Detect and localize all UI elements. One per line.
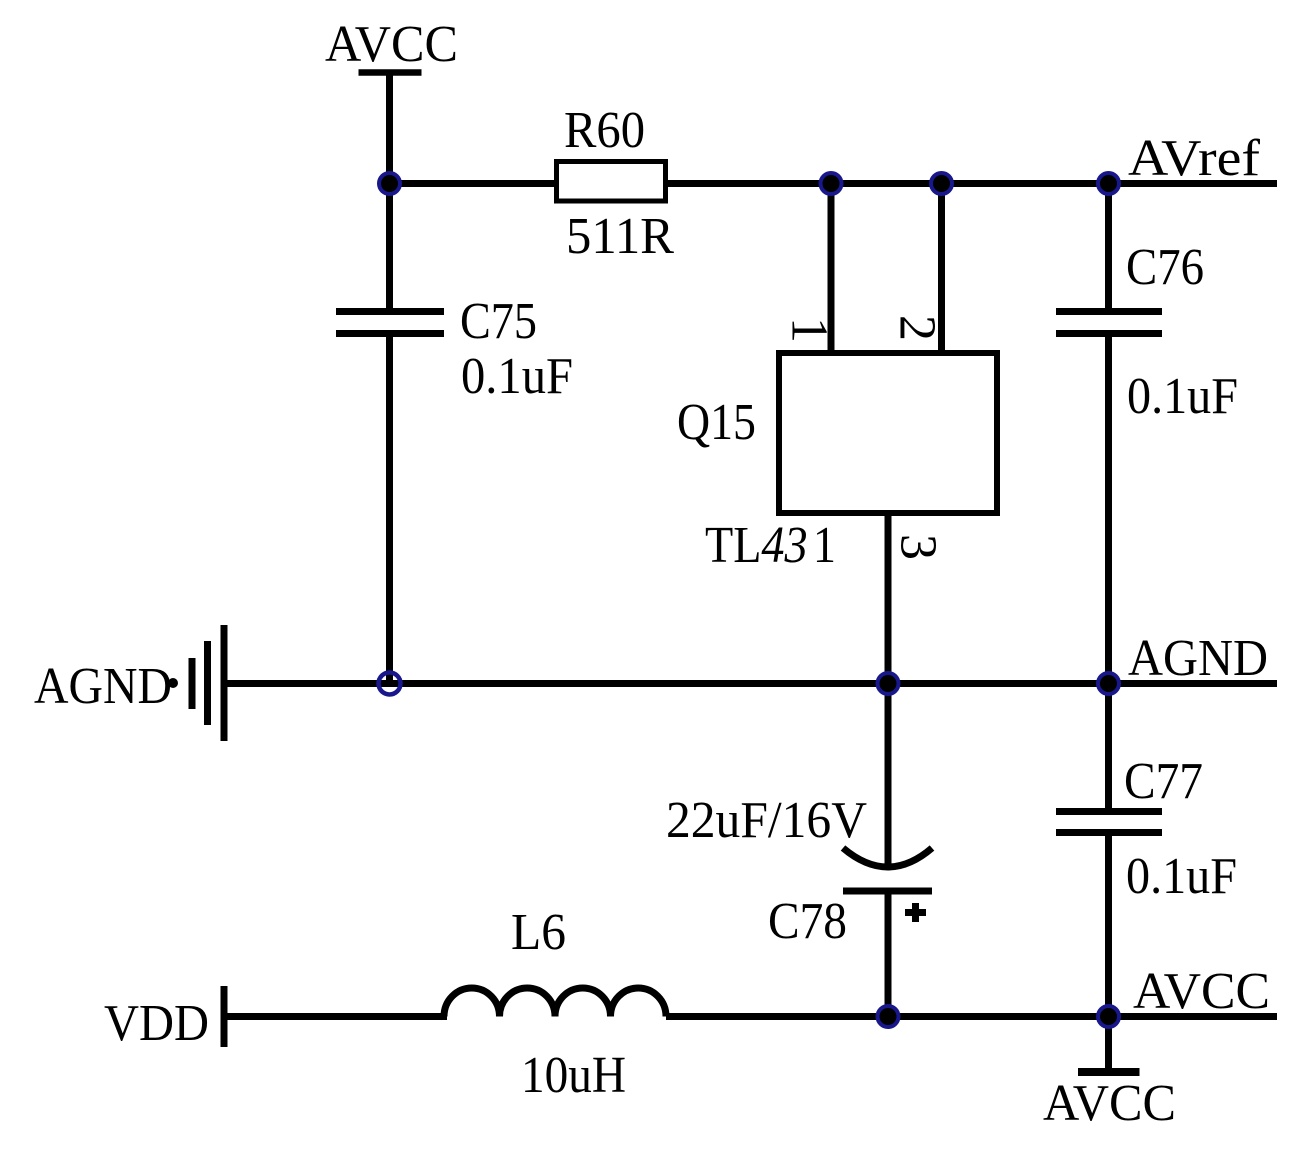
- wire right vertical from C76 down to AGND rail: [1105, 336, 1112, 683]
- svg-text:TL431: TL431: [705, 517, 836, 574]
- junction dot AVCC/C75/R60 node: [379, 173, 400, 194]
- svg-text:0.1uF: 0.1uF: [1127, 368, 1238, 425]
- svg-text:AVCC: AVCC: [325, 16, 458, 73]
- svg-text:C77: C77: [1124, 753, 1203, 810]
- wire bottom rail VDD to inductor: [224, 1013, 447, 1020]
- capacitor C78 (polarized): [843, 848, 932, 922]
- power symbol AVCC bottom-right: [1078, 1016, 1140, 1072]
- junction dot pin2 node: [931, 173, 952, 194]
- wire pin1 vertical from top rail to TL431: [828, 183, 835, 352]
- wire left vertical from AVCC node down to C75: [386, 183, 393, 309]
- svg-text:C76: C76: [1126, 239, 1204, 296]
- svg-text:AVref: AVref: [1128, 130, 1261, 187]
- svg-text:0.1uF: 0.1uF: [461, 348, 573, 405]
- svg-text:3: 3: [890, 534, 947, 560]
- junction dot AGND/C77 node: [1098, 673, 1119, 694]
- inductor L6: [444, 988, 666, 1016]
- junction dot AVCC rail/power node: [1098, 1006, 1119, 1027]
- wire from AGND rail down to C78: [885, 683, 892, 866]
- svg-text:VDD: VDD: [104, 995, 209, 1052]
- port VDD pin bar: [221, 986, 228, 1047]
- svg-text:1: 1: [781, 317, 838, 343]
- power symbol AVCC top-left: [359, 72, 422, 183]
- svg-text:2: 2: [889, 315, 946, 341]
- svg-text:AGND: AGND: [34, 658, 172, 715]
- svg-text:C78: C78: [768, 893, 847, 950]
- svg-text:Q15: Q15: [677, 394, 756, 451]
- wire from AGND rail down to C77: [1105, 683, 1112, 809]
- capacitor C77: [1056, 812, 1162, 833]
- junction dot C78/AVCC rail node: [878, 1006, 899, 1027]
- wire bottom rail inductor to right end: [666, 1013, 1277, 1020]
- svg-text:511R: 511R: [566, 208, 674, 265]
- junction dot pin1 node: [821, 173, 842, 194]
- svg-text:AGND: AGND: [1128, 630, 1268, 687]
- wire AGND rail: [224, 680, 1277, 687]
- junction dot pin3/AGND node: [878, 673, 899, 694]
- wire from C78 down to AVCC rail: [885, 894, 892, 1016]
- capacitor C75: [336, 312, 444, 334]
- svg-text:10uH: 10uH: [521, 1047, 626, 1104]
- open junction circle C75/AGND node: [379, 673, 401, 695]
- wire left vertical from C75 down to AGND rail: [386, 336, 393, 683]
- svg-text:AVCC: AVCC: [1133, 963, 1270, 1020]
- svg-text:C75: C75: [460, 293, 537, 350]
- svg-text:L6: L6: [511, 904, 566, 961]
- svg-text:22uF/16V: 22uF/16V: [666, 792, 867, 849]
- ground AGND port symbol: [168, 625, 224, 741]
- svg-text:AVCC: AVCC: [1043, 1075, 1176, 1132]
- wire pin3 vertical from TL431 to AGND rail: [885, 513, 892, 683]
- junction dot AVref/C76 node: [1098, 173, 1119, 194]
- wire right vertical from AVref node down to C76: [1105, 183, 1112, 309]
- capacitor C76: [1056, 312, 1162, 334]
- wire pin2 vertical from top rail to TL431: [938, 183, 945, 352]
- resistor R60: [557, 162, 666, 202]
- svg-text:R60: R60: [564, 102, 645, 159]
- wire top rail AVCC node to AVref: [389, 180, 1277, 187]
- wire from C77 down to AVCC rail: [1105, 835, 1112, 1016]
- svg-text:0.1uF: 0.1uF: [1126, 848, 1237, 905]
- op-amp-block TL431 Q15 box: [779, 353, 997, 513]
